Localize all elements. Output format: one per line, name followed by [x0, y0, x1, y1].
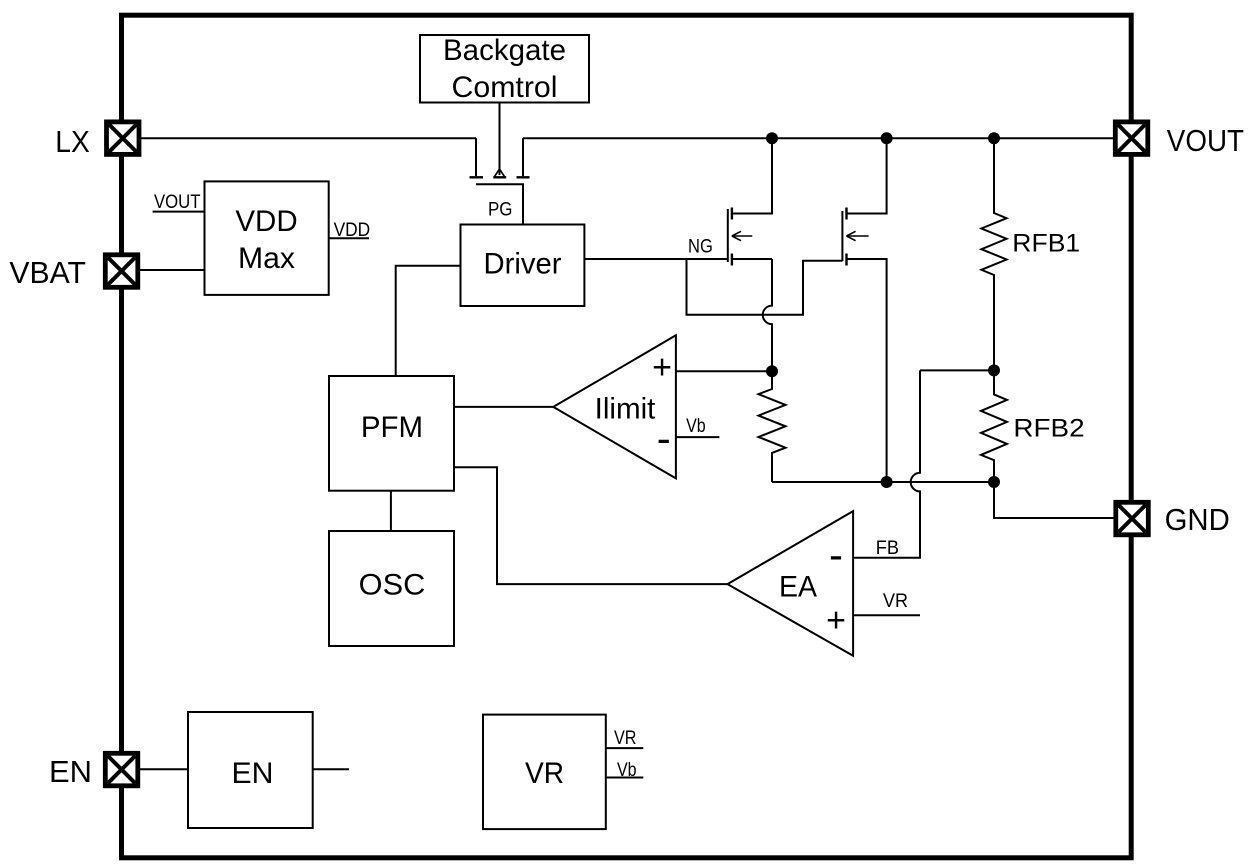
bulk arrow [495, 169, 500, 176]
svg-text:VR: VR [614, 727, 637, 749]
source wire down with hop over NG route [732, 258, 772, 260]
wire Driver output NG [584, 258, 727, 260]
op-amp EA error amplifier [728, 511, 854, 656]
resistor RFB1 [981, 138, 1080, 370]
node VOUT/Q2 drain [881, 132, 893, 144]
svg-text:FB: FB [876, 537, 899, 559]
wire Vb stub (Ilimit) [676, 436, 720, 438]
svg-text:RFB1: RFB1 [1012, 229, 1080, 257]
source stub [475, 138, 477, 176]
bulk arrow [847, 235, 869, 237]
bulk arrow [732, 235, 752, 237]
block Driver [461, 225, 585, 307]
svg-text:Vb: Vb [686, 415, 706, 437]
drain stub [522, 138, 524, 176]
svg-text:VOUT: VOUT [1167, 123, 1244, 158]
node VOUT/Q1 drain [766, 132, 778, 144]
block PFM [329, 376, 454, 491]
svg-text:LX: LX [55, 124, 90, 159]
source bar [845, 254, 847, 266]
gate plate [727, 209, 729, 262]
svg-text:Driver: Driver [484, 248, 562, 281]
gate plate and gate drop [476, 184, 523, 224]
svg-text:VBAT: VBAT [9, 255, 86, 290]
wire PFM to Ilimit apex [454, 406, 553, 408]
pin LX [107, 122, 140, 154]
wire VR stub (EA) [853, 614, 920, 616]
svg-text:NG: NG [688, 236, 713, 258]
block EN [188, 712, 313, 828]
pin VOUT [1115, 122, 1148, 154]
svg-text:Backgate: Backgate [443, 34, 566, 67]
block Backgate Comtrol [420, 34, 589, 104]
svg-text:PFM: PFM [361, 411, 423, 444]
source wire down to GND net [847, 259, 887, 482]
block OSC [329, 531, 454, 646]
wire RFB2 bottom to GND pin [994, 482, 1114, 518]
wire VOUT stub into VDD Max [153, 211, 205, 213]
node FB divider mid [988, 364, 1000, 376]
wire VBAT pin to VDD Max [140, 269, 205, 271]
block VR [483, 715, 606, 830]
wire VOUT rail (PMOS drain to VOUT pin) [523, 137, 1114, 139]
pin EN [105, 753, 138, 786]
wire VDD stub [329, 237, 369, 239]
svg-text:EA: EA [779, 571, 817, 604]
op-amp Ilimit comparator [553, 335, 676, 478]
svg-text:RFB2: RFB2 [1013, 415, 1084, 443]
node sense resistor top [766, 365, 778, 377]
svg-text:VR: VR [883, 590, 908, 612]
wire VR stub (VR block) [606, 747, 644, 749]
source bar [731, 254, 733, 266]
wire LX to PMOS source [141, 137, 476, 139]
svg-text:VR: VR [525, 757, 564, 790]
drain wire up to VOUT rail [847, 138, 887, 213]
resistor sense (unlabeled) [759, 371, 786, 482]
node GND/Q2 source [881, 476, 893, 488]
node VOUT/RFB1 top [988, 132, 1000, 144]
wire FB vertical with hop over GND net [853, 370, 920, 557]
wire PFM to EA apex [454, 467, 728, 584]
wire FB tap horizontal [920, 369, 994, 371]
wire NG routing to second NMOS gate (with under-route) [687, 259, 843, 315]
wire EN block output stub [313, 768, 349, 770]
pin VBAT [105, 255, 138, 287]
transistor NMOS Q1 [728, 138, 772, 371]
svg-text:Ilimit: Ilimit [595, 393, 656, 426]
wire GND net horizontal [772, 481, 994, 483]
wire Ilimit + input to sense node [676, 370, 772, 372]
svg-text:-: - [657, 415, 671, 462]
svg-text:+: + [826, 602, 846, 640]
svg-text:EN: EN [232, 757, 274, 790]
wire backgate control to PMOS bulk [499, 103, 501, 176]
svg-text:PG: PG [488, 199, 513, 221]
drain bar [731, 208, 733, 220]
wire EN pin to EN block [140, 768, 188, 770]
svg-text:+: + [652, 349, 672, 387]
svg-text:VDD: VDD [235, 205, 297, 238]
resistor RFB2 [981, 370, 1085, 482]
chip outer border [122, 15, 1132, 858]
transistor NMOS Q2 [842, 138, 886, 482]
drain wire up to VOUT rail [732, 138, 772, 213]
block VDD Max [205, 181, 329, 295]
transistor PMOS pass device (top) [470, 138, 530, 224]
svg-text:Comtrol: Comtrol [452, 71, 558, 104]
wire Vb stub (VR block) [606, 777, 644, 779]
pin GND [1116, 502, 1149, 535]
svg-text:OSC: OSC [359, 569, 426, 602]
svg-text:VOUT: VOUT [154, 191, 201, 213]
svg-text:GND: GND [1165, 502, 1230, 537]
svg-text:EN: EN [49, 754, 92, 789]
wire PFM to OSC [390, 491, 392, 531]
gate plate [841, 211, 843, 261]
wire Driver left to PFM top [396, 266, 461, 376]
svg-text:-: - [829, 531, 843, 578]
svg-text:Max: Max [238, 242, 295, 275]
node GND/RFB2 bottom [988, 476, 1000, 488]
drain bar [845, 208, 847, 220]
